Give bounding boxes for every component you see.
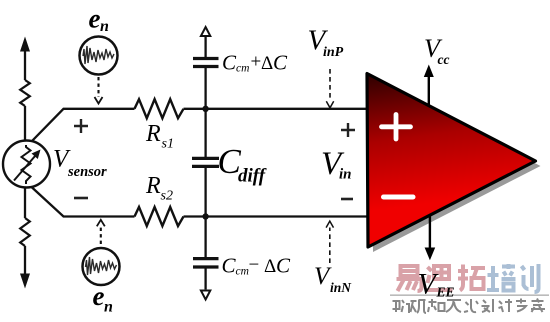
- Vcc arrow: [428, 74, 430, 107]
- wire: diagonal from sensor to - rail: [32, 187, 135, 217]
- op-amp shadow: [372, 79, 541, 253]
- svg-text:in: in: [339, 167, 352, 183]
- svg-text:C: C: [273, 50, 288, 74]
- watermark big text 易迪拓 (pink pseudo-glyphs): [397, 264, 486, 291]
- label + (right): [341, 123, 355, 137]
- resistor R_s1: [135, 99, 184, 118]
- capacitor Ccm+dC plates: [193, 59, 219, 67]
- wire: [24, 246, 26, 275]
- arrow up (top of sensor branch): [20, 37, 30, 52]
- arrow through sensor: [14, 156, 36, 181]
- label - (left): [74, 197, 88, 200]
- wire: R_s2 to op-amp: [184, 215, 367, 217]
- bottom hollow arrow: [201, 291, 210, 300]
- svg-text:C: C: [222, 50, 237, 74]
- Vee arrow: [429, 216, 431, 249]
- svg-text:e: e: [93, 281, 105, 311]
- noise waveform bottom: [86, 257, 117, 275]
- svg-text:n: n: [100, 18, 109, 35]
- capacitor Cdiff plates: [192, 158, 219, 166]
- svg-text:e: e: [89, 4, 101, 34]
- watermark separator line: [390, 294, 549, 296]
- svg-text:EE: EE: [436, 285, 455, 300]
- svg-text:n: n: [104, 299, 113, 316]
- svg-text:cc: cc: [438, 52, 450, 67]
- op-amp - input marking (white): [384, 195, 414, 200]
- wire: diagonal from sensor to + rail: [32, 109, 135, 142]
- svg-text:cm: cm: [236, 63, 249, 75]
- wire: sensor bottom to lower resistor: [24, 188, 26, 219]
- resistor R_s2: [135, 207, 184, 226]
- svg-text:Δ: Δ: [264, 256, 276, 277]
- label - (right): [341, 198, 353, 201]
- svg-text:sensor: sensor: [67, 164, 107, 180]
- svg-text:s1: s1: [162, 137, 174, 152]
- op-amp U1 triangle: [367, 74, 536, 248]
- wire: [24, 106, 26, 141]
- noise waveform top: [83, 46, 114, 64]
- svg-text:cm: cm: [236, 266, 249, 278]
- wire: [204, 269, 206, 290]
- wire: R_s1 to op-amp: [184, 108, 367, 110]
- label + (left): [74, 119, 88, 133]
- dashed arrow from e_n bottom to - rail: [100, 226, 102, 244]
- op-amp + input marking (white): [382, 115, 411, 140]
- dashed arrow V_inN: [329, 228, 331, 264]
- junction node bottom: [202, 213, 208, 219]
- noise source e_n bottom circle: [83, 248, 120, 285]
- wire: left vertical branch top segment: [24, 49, 26, 80]
- sensor circle V_sensor: [3, 141, 50, 188]
- svg-text:−: −: [249, 255, 260, 276]
- wire: [204, 168, 206, 257]
- resistor (vertical, upper sensor branch): [20, 80, 30, 106]
- arrow down (bottom of sensor branch): [20, 274, 30, 289]
- resistor (vertical, lower sensor branch): [20, 218, 30, 246]
- wire: [204, 36, 206, 57]
- wire: [204, 68, 206, 157]
- svg-text:Δ: Δ: [261, 53, 273, 74]
- watermark big text 培训 (blue pseudo-glyphs): [487, 264, 539, 292]
- variable resistor zigzag inside sensor: [22, 145, 31, 184]
- svg-text:inN: inN: [330, 280, 352, 295]
- watermark small gray text 射频和天线设计专家: [393, 299, 546, 314]
- junction node top: [202, 106, 208, 112]
- svg-text:inP: inP: [323, 45, 344, 60]
- svg-text:R: R: [145, 173, 161, 199]
- noise source e_n top circle: [80, 37, 118, 75]
- capacitor column: top hollow arrow: [201, 27, 210, 36]
- svg-text:s2: s2: [161, 189, 173, 204]
- svg-text:diff: diff: [238, 166, 267, 187]
- svg-text:C: C: [222, 254, 237, 278]
- dashed arrow from e_n top to + rail: [97, 77, 99, 97]
- svg-text:R: R: [145, 121, 161, 147]
- dashed arrow V_inP: [329, 69, 331, 101]
- svg-text:+: +: [251, 52, 262, 73]
- svg-text:C: C: [276, 254, 291, 278]
- capacitor Ccm-dC plates: [193, 259, 219, 267]
